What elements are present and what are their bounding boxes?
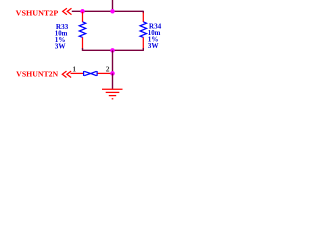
wire middle vertical down — [112, 50, 114, 73]
net tie pin 1 wire — [71, 72, 84, 74]
svg-text:2: 2 — [106, 64, 110, 73]
node junction bottom-middle — [110, 48, 115, 53]
node junction top-left — [80, 9, 85, 14]
ground symbol — [102, 89, 123, 99]
wire bottom horizontal of loop — [83, 49, 144, 51]
node junction net tie — [110, 71, 115, 76]
resistor R34 labels — [148, 23, 162, 50]
wire right corner down — [142, 11, 144, 13]
resistor R34 pins — [142, 13, 144, 49]
svg-text:VSHUNT2N: VSHUNT2N — [16, 69, 59, 78]
node junction top-middle — [110, 9, 115, 14]
resistor R33 pins — [82, 12, 84, 49]
net tie pin 2 wire — [98, 72, 113, 74]
svg-text:3W: 3W — [55, 42, 67, 50]
wire bottom-left corner up — [82, 48, 84, 51]
svg-text:3W: 3W — [148, 42, 160, 50]
wire bottom-right corner up — [142, 48, 144, 51]
resistor R33 zigzag — [79, 22, 85, 38]
wire top stub up — [112, 0, 114, 11]
svg-text:1: 1 — [72, 64, 76, 73]
port VSHUNT2P chevrons — [63, 8, 72, 14]
resistor R33 labels — [55, 23, 69, 51]
wire ground vertical — [112, 73, 114, 89]
port VSHUNT2N chevrons — [62, 71, 71, 77]
resistor R34 zigzag — [140, 22, 146, 38]
wire top horizontal — [72, 10, 144, 12]
net tie symbol — [84, 71, 98, 76]
svg-text:VSHUNT2P: VSHUNT2P — [16, 9, 59, 18]
